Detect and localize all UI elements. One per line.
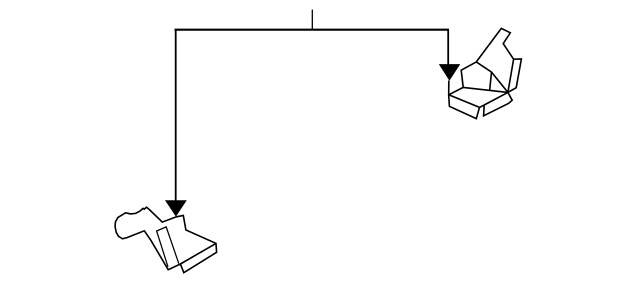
bracket left: fold line (top face bottom edge) <box>180 243 216 264</box>
arrowhead left <box>165 200 187 216</box>
leader horizontal line <box>175 29 450 31</box>
bracket left: outer outline <box>115 207 217 273</box>
bracket right: flange <box>461 28 521 92</box>
leader vertical left <box>175 30 177 201</box>
arrowhead right <box>439 64 461 81</box>
leader tick top center <box>311 10 313 30</box>
bracket right: base plate <box>449 81 513 119</box>
bracket left: rib <box>157 227 179 267</box>
leader vertical right <box>447 30 449 65</box>
